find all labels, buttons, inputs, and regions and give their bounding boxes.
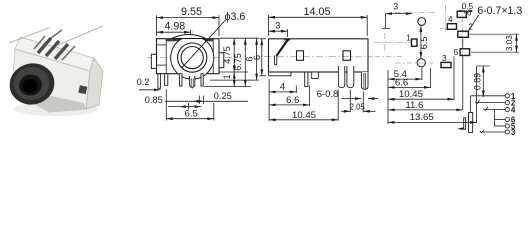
side view - dim 6 (height) <box>260 38 267 40</box>
side view - dim 4 <box>268 79 270 121</box>
side view - dim 14.05 <box>269 16 368 18</box>
front view - dim line upper (pin gaps) <box>165 100 248 102</box>
pcb view - dim 13.65 <box>476 66 478 123</box>
pcb view - pad 4 <box>447 24 456 30</box>
photo - barrel inner cone <box>17 72 44 98</box>
side view - barrel block (lower-left step) <box>268 72 270 76</box>
svg-text:13.65: 13.65 <box>410 112 434 123</box>
side view - center line (gray) <box>264 55 373 57</box>
svg-text:1: 1 <box>406 33 411 42</box>
side view - dim 10.45 <box>337 90 339 121</box>
svg-text:4: 4 <box>511 106 516 115</box>
side view - dim 6.6 <box>309 86 311 107</box>
svg-text:11.6: 11.6 <box>405 100 423 111</box>
side view - dim 2.05 <box>349 90 351 113</box>
photo - black jack barrel outer ring <box>5 59 59 110</box>
pcb view - dim 3.03 <box>470 33 520 35</box>
svg-text:6.5: 6.5 <box>185 109 198 120</box>
schematic - wire pin6 <box>494 119 505 121</box>
pcb view - dim 11.6 <box>462 38 464 48</box>
front view - right mounting tab <box>219 53 224 68</box>
svg-text:6-0.7×1.3: 6-0.7×1.3 <box>477 5 522 17</box>
front view - dim 9.55 extension lines <box>156 15 158 36</box>
front view - dark crimp band on top edge <box>166 39 213 42</box>
pcb view - dim 6.5 between holes <box>420 26 422 59</box>
pcb view - pad 1 <box>412 39 418 46</box>
svg-text:3: 3 <box>511 128 516 137</box>
front view - right dims extension lines <box>220 37 259 39</box>
svg-text:6.5: 6.5 <box>419 37 429 50</box>
front view - dim 6 <box>256 38 258 80</box>
svg-text:0.5: 0.5 <box>462 2 474 11</box>
front view - jack boss outer circle <box>171 39 214 79</box>
front view - dim 6.75 <box>244 38 246 86</box>
front view - center lines (gray) <box>147 57 232 59</box>
front view - left mounting tab <box>151 54 156 68</box>
front view - dim 4.98 <box>190 30 192 35</box>
side view - body outline <box>269 39 369 72</box>
svg-text:10.45: 10.45 <box>292 110 316 121</box>
pcb view - dim 10.45 <box>453 57 455 101</box>
svg-text:0.2: 0.2 <box>137 77 150 87</box>
front view - pin 5 <box>201 74 203 86</box>
schematic - switch contact pin2 <box>475 100 479 103</box>
pcb view - pad 5 <box>460 49 470 56</box>
photo - metal terminal pins on top <box>38 38 68 59</box>
svg-text:6-0.8: 6-0.8 <box>317 89 339 100</box>
pcb view - pad 6 <box>457 11 466 17</box>
svg-text:14.05: 14.05 <box>303 6 330 18</box>
photo - connector body right end face <box>86 58 103 109</box>
photo - connector body top face <box>15 37 94 71</box>
photo - body bottom shading <box>12 88 86 112</box>
pcb view - mounting hole circle 1 <box>418 18 426 26</box>
front view - dim 9.55 <box>157 17 220 19</box>
front view - label phi3.6 with leader <box>181 20 226 69</box>
pcb view - mounting hole circle 2 <box>417 59 425 67</box>
photo - small dark window on right face <box>78 85 87 94</box>
pcb view - dim 0.89 <box>477 65 490 67</box>
schematic - plug tip arrow <box>459 128 464 130</box>
front view - body outline <box>157 39 220 74</box>
schematic - terminal 5 <box>505 124 509 128</box>
schematic - terminal 3 <box>505 130 509 134</box>
schematic - wire pin1 (sleeve) <box>470 96 472 113</box>
front view - flange arc above top edge <box>172 34 206 38</box>
svg-text:3: 3 <box>442 54 447 63</box>
svg-text:ϕ3.6: ϕ3.6 <box>225 11 246 23</box>
schematic - switch contact pin4 <box>484 107 488 110</box>
svg-text:3: 3 <box>393 1 398 11</box>
schematic - plug body <box>469 113 473 133</box>
svg-text:4: 4 <box>448 15 453 24</box>
svg-text:1: 1 <box>222 74 232 79</box>
side view - barrel slanted edge <box>284 39 291 42</box>
front view - pin 3 <box>179 74 182 86</box>
schematic - terminal 4 <box>505 107 509 111</box>
front view - pin 2 <box>165 74 168 86</box>
pcb view - pad 3 <box>441 62 451 67</box>
side view - dim 14.05 extension lines <box>268 15 270 36</box>
svg-text:9.55: 9.55 <box>181 6 202 18</box>
svg-text:0.25: 0.25 <box>214 91 232 101</box>
front view - dim 4.75 <box>233 38 235 72</box>
svg-text:0.85: 0.85 <box>145 95 163 105</box>
svg-text:6.6: 6.6 <box>395 77 408 88</box>
schematic - bus wire connecting 4-6-5 <box>493 110 495 127</box>
svg-text:4: 4 <box>280 81 285 92</box>
svg-text:10.45: 10.45 <box>399 89 423 100</box>
front view - jack bushing circle <box>178 43 207 72</box>
photo - thin metal leg pointing up-left <box>9 28 50 44</box>
svg-text:3: 3 <box>275 21 280 31</box>
side view - right edge pin C <box>362 72 369 89</box>
side view - U pin B <box>347 66 354 88</box>
svg-text:6.6: 6.6 <box>286 95 299 106</box>
schematic - terminal 1 <box>505 94 509 98</box>
svg-text:0.89: 0.89 <box>473 73 483 90</box>
side view - U pin A <box>338 66 344 88</box>
svg-text:6.75: 6.75 <box>233 53 243 71</box>
schematic - wire pin5 <box>494 125 505 127</box>
schematic - terminal 6 <box>505 118 509 122</box>
schematic - terminal 2 <box>505 101 509 105</box>
photo - connector body front face <box>12 49 90 112</box>
svg-text:2.05: 2.05 <box>350 103 366 112</box>
front view - pin 1 <box>158 74 161 89</box>
pcb view - dim 5.4 <box>421 68 423 81</box>
photo - barrel ring face <box>10 63 53 104</box>
side view - dim 3 (barrel) <box>287 29 289 37</box>
svg-text:6: 6 <box>252 55 262 60</box>
front view - jack bore circle (phi 3.6) <box>181 47 203 69</box>
side view - square window 1 <box>297 51 304 61</box>
front view - center sleeve pin <box>190 76 195 87</box>
pcb view - dim 6.6 <box>430 68 432 88</box>
side view - left bottom pin <box>305 72 308 87</box>
front view - dim 1 <box>233 72 235 87</box>
front view - dim line lower <box>168 106 201 108</box>
side view - plastic tab <box>312 72 319 78</box>
front view - dim 6.5 <box>165 90 167 121</box>
photo - barrel bore hole <box>23 79 38 93</box>
pcb view - gray construction lines <box>395 12 437 14</box>
pcb view - bottom dims reference line <box>387 70 389 124</box>
photo - thin metal leg pointing up-right <box>58 26 103 45</box>
svg-text:4.75: 4.75 <box>222 46 232 64</box>
svg-text:5: 5 <box>454 48 459 57</box>
svg-text:4.98: 4.98 <box>164 21 185 33</box>
side view - contact slot <box>274 56 276 65</box>
svg-text:3.03: 3.03 <box>505 35 514 51</box>
photo of 3.5mm SMD audio jack connector - drop shadow <box>14 102 98 116</box>
side view - square window 2 <box>343 51 351 61</box>
pcb view - pad 2 <box>458 31 469 37</box>
schematic - switch contact pin3 <box>480 130 484 133</box>
